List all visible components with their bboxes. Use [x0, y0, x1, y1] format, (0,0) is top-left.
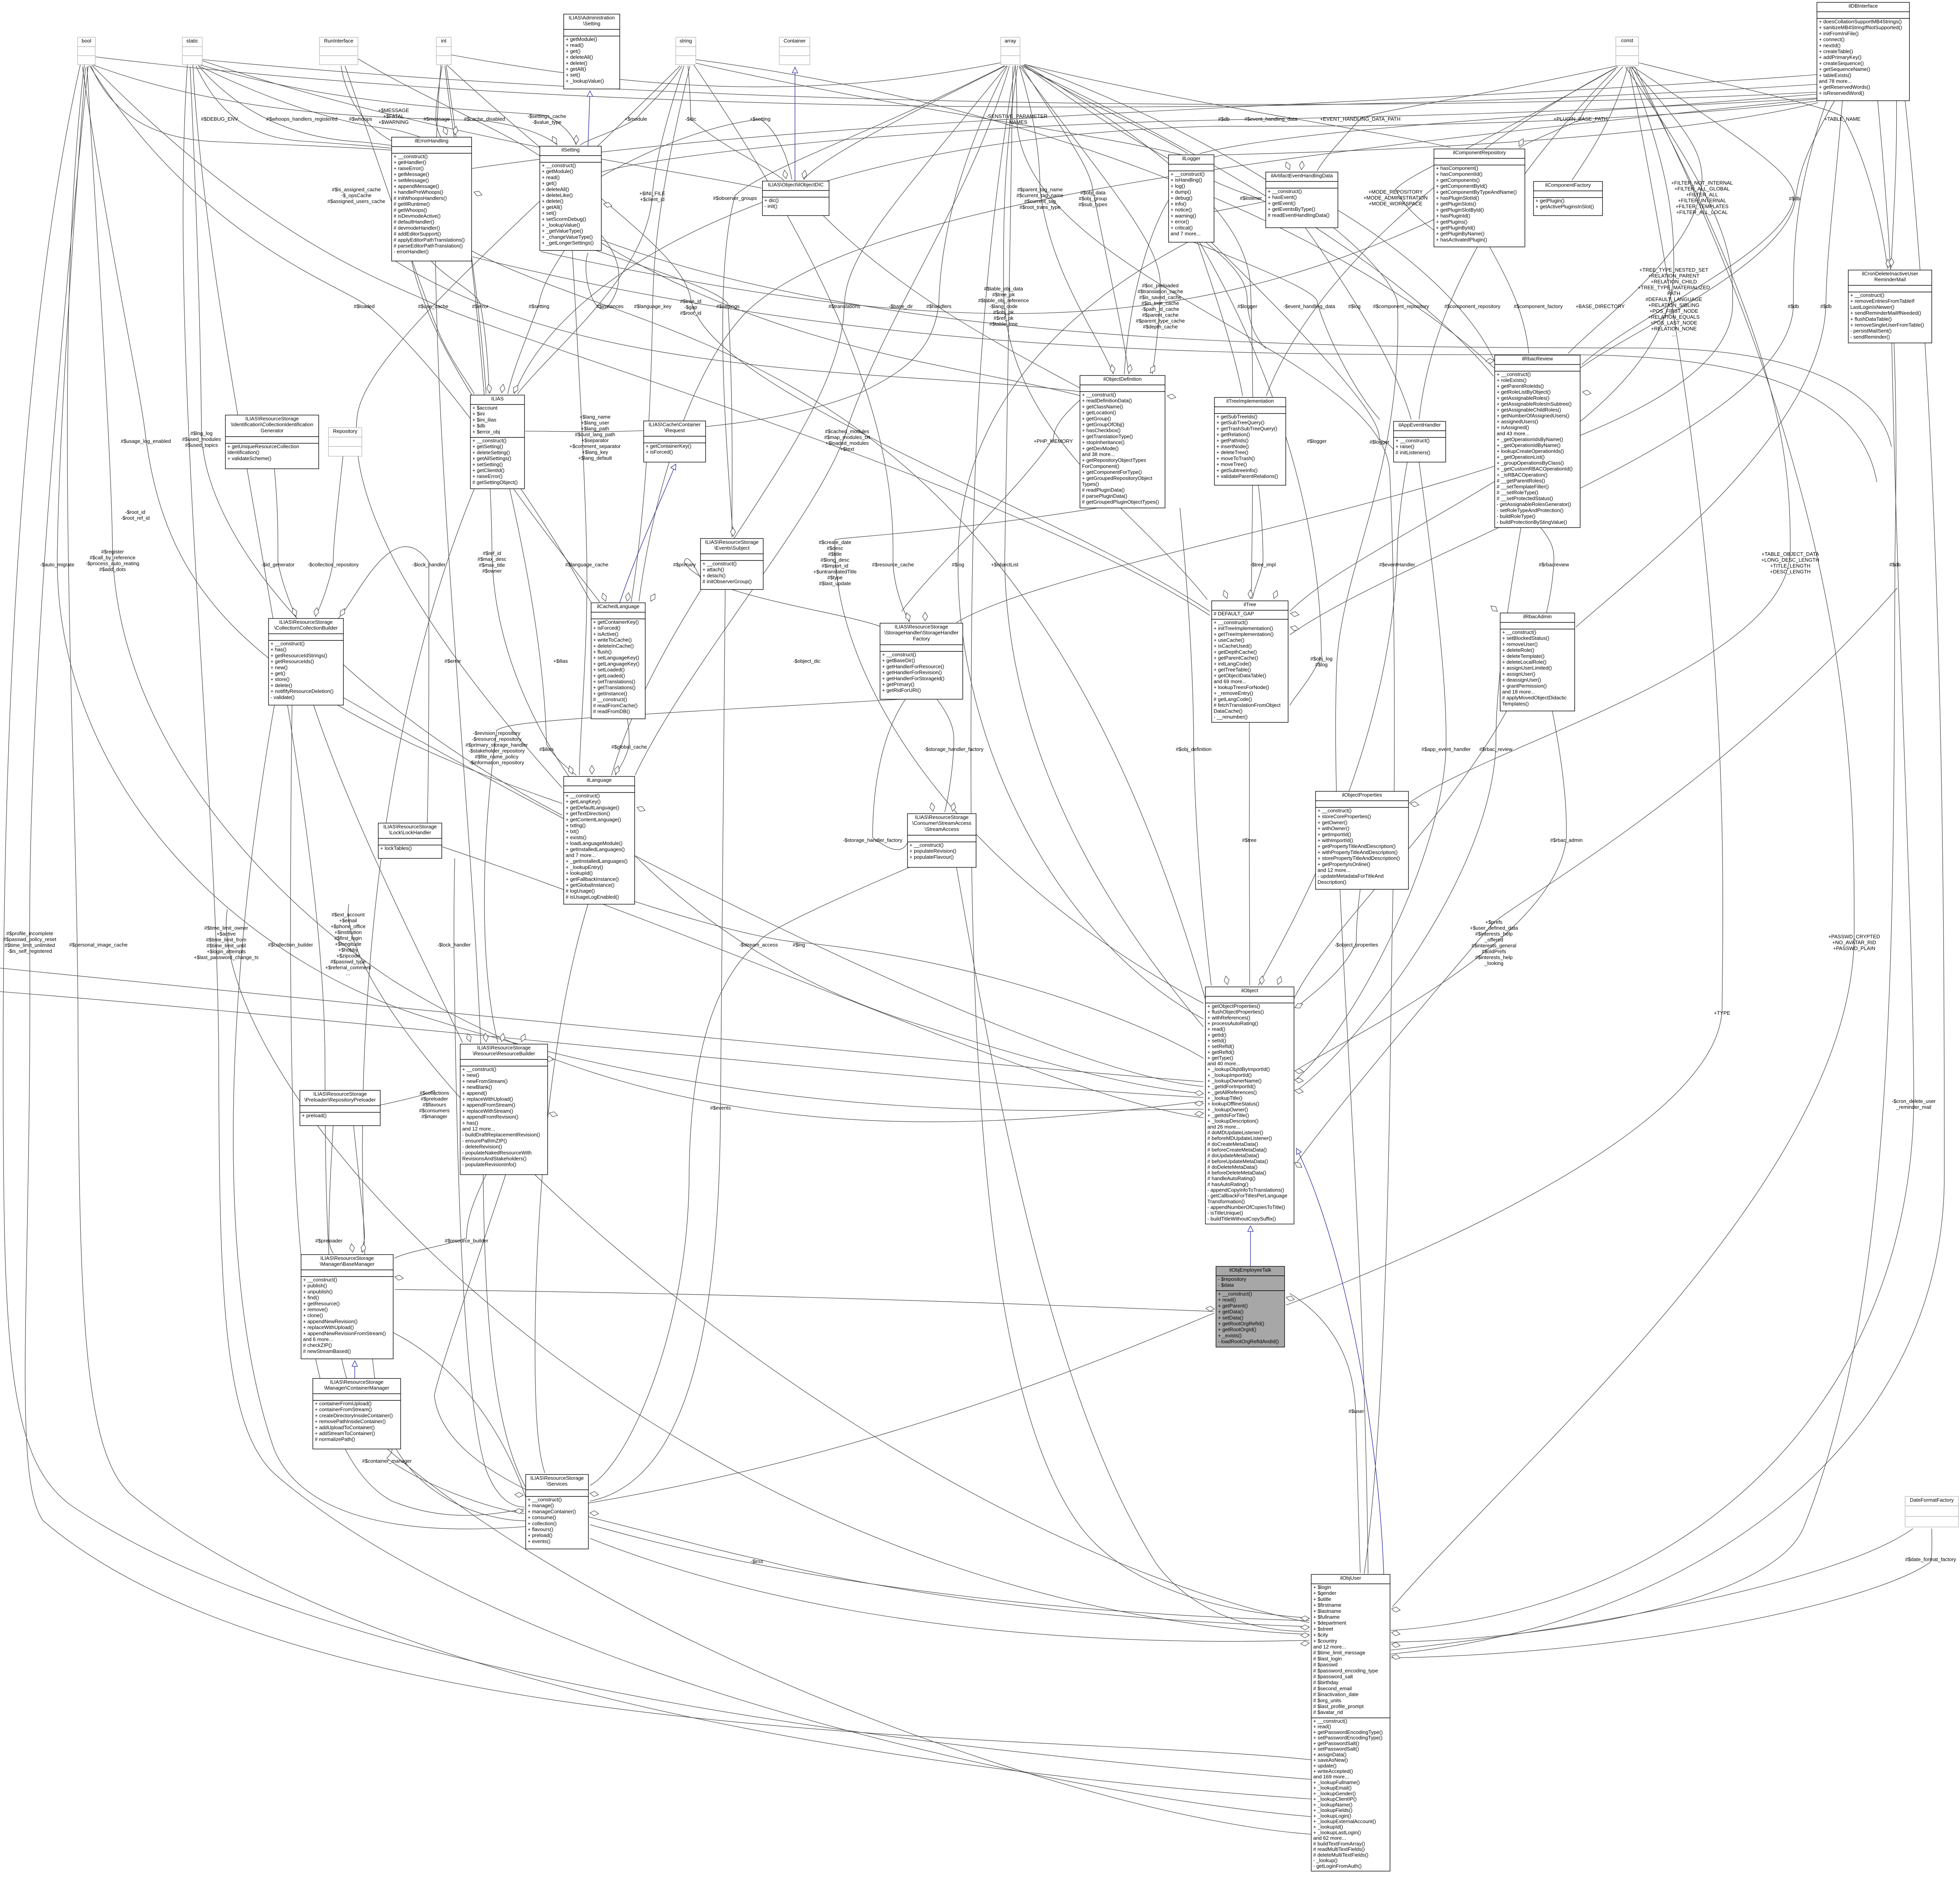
- class Container: [779, 37, 810, 65]
- wire RunInterface -&gt; ilErrorHandling: [341, 66, 444, 156]
- class ResourceBuilder: [460, 1044, 548, 1175]
- svg-text:+ getDepthCache(): + getDepthCache(): [1214, 649, 1257, 655]
- class const: [1616, 37, 1639, 65]
- svg-text:#$primary: #$primary: [673, 562, 696, 568]
- svg-text:+ _getCustomRBACOperationId(): + _getCustomRBACOperationId(): [1497, 466, 1573, 472]
- svg-text:+$client_id: +$client_id: [640, 196, 665, 202]
- wire BaseManager -&gt; Services: [393, 1333, 526, 1497]
- svg-text:#$global_cache: #$global_cache: [611, 744, 647, 750]
- aggregation diamond: [292, 608, 297, 616]
- svg-text:# getSettingObject(): # getSettingObject(): [472, 479, 518, 485]
- svg-text:-$object_dic: -$object_dic: [793, 658, 821, 664]
- wire array -&gt; ilTree table block: [1004, 66, 1207, 600]
- inheritance arrowhead: [1248, 1226, 1253, 1231]
- svg-text:#$obj_pk: #$obj_pk: [993, 309, 1014, 315]
- svg-text:- sendReminder(): - sendReminder(): [1850, 334, 1890, 340]
- svg-text:#$max_title: #$max_title: [479, 562, 505, 568]
- svg-text:+ getHandlerForRevision(): + getHandlerForRevision(): [882, 669, 942, 675]
- svg-text:+ getComponentByTypeAndName(): + getComponentByTypeAndName(): [1436, 189, 1517, 195]
- svg-text:+ _isRBACOperation(): + _isRBACOperation(): [1497, 472, 1548, 478]
- svg-text:+ assignData(): + assignData(): [1313, 1752, 1347, 1757]
- svg-text:+ getPrimary(): + getPrimary(): [882, 682, 915, 687]
- svg-text:+ getMessage(): + getMessage(): [394, 171, 429, 177]
- wire static -&gt; ilErrorHandling whoops: [199, 67, 450, 156]
- svg-text:\Events\Subject: \Events\Subject: [714, 545, 750, 551]
- wire ilObjectDefinition -&gt; create date block ilObject: [835, 508, 1203, 1003]
- svg-text:+ lookupTreesForNode(): + lookupTreesForNode(): [1214, 684, 1269, 690]
- wire const -&gt; MODE block ilComponentRepository: [1396, 67, 1618, 246]
- svg-text:+ _removeEntry(): + _removeEntry(): [1214, 690, 1253, 696]
- svg-text:+ removeEntriesFromTableIf: + removeEntriesFromTableIf: [1850, 298, 1915, 304]
- svg-text:+ _lookupTitle(): + _lookupTitle(): [1207, 1095, 1242, 1101]
- svg-text:+ read(): + read(): [1218, 1297, 1236, 1303]
- aggregation diamond: [500, 1033, 505, 1042]
- svg-text:+$untranslatedTitle: +$untranslatedTitle: [813, 569, 857, 575]
- svg-text:ILIAS\ResourceStorage: ILIAS\ResourceStorage: [279, 619, 333, 625]
- svg-text:+ getComponentById(): + getComponentById(): [1436, 183, 1487, 189]
- class ilSetting: [540, 146, 601, 250]
- svg-text:# handleAutoRating(): # handleAutoRating(): [1207, 1175, 1256, 1181]
- wire RepositoryPreloader -&gt; collections block: [379, 1090, 435, 1105]
- svg-text:- getCallbackForTitlesPerLangu: - getCallbackForTitlesPerLanguage: [1207, 1193, 1287, 1199]
- wire ilLogger -&gt; ilAppEventHandler logger: [1211, 242, 1395, 451]
- svg-text:+ storePropertyTitleAndDescrip: + storePropertyTitleAndDescription(): [1318, 855, 1400, 861]
- svg-text:+ _lookupGender(): + _lookupGender(): [1313, 1790, 1356, 1796]
- svg-text:+ getFallbackInstance(): + getFallbackInstance(): [566, 876, 619, 882]
- svg-text:+ __construct(): + __construct(): [303, 1277, 337, 1283]
- svg-text:ilLanguage: ilLanguage: [587, 777, 612, 783]
- svg-text:ILIAS\ResourceStorage: ILIAS\ResourceStorage: [705, 539, 759, 545]
- wire ilArtifact -&gt; ilAppEventHandler: [1305, 228, 1411, 419]
- wire string -&gt; ilLanguage lang_name: [356, 66, 680, 788]
- svg-text:+ deleteAll(): + deleteAll(): [566, 54, 593, 60]
- svg-text:+$lang_user: +$lang_user: [581, 420, 610, 426]
- svg-text:+ getComponentForType(): + getComponentForType(): [1082, 469, 1142, 475]
- svg-text:#$listener: #$listener: [1240, 195, 1262, 201]
- svg-text:+ hasEvent(): + hasEvent(): [1268, 194, 1297, 200]
- svg-text:# newStreamBased(): # newStreamBased(): [303, 1348, 351, 1354]
- svg-text:#$first_login: #$first_login: [334, 935, 362, 941]
- svg-text:+ delete(): + delete(): [566, 60, 587, 66]
- svg-text:+ new(): + new(): [270, 664, 288, 670]
- svg-text:-$information_repository: -$information_repository: [469, 760, 524, 765]
- svg-text:+ _groupOperationsByClass(): + _groupOperationsByClass(): [1497, 460, 1564, 466]
- svg-text:+ initTreeImplementation(): + initTreeImplementation(): [1214, 626, 1273, 631]
- svg-text:\Manager\ContainerManager: \Manager\ContainerManager: [324, 1385, 390, 1391]
- svg-text:# fetchTranslationFromObject: # fetchTranslationFromObject: [1214, 702, 1281, 708]
- wire MESSAGE FATAL WARNING static -&gt; ilErrorHandling: [198, 65, 452, 155]
- wire bool -&gt; ilObject auto_migrate: [57, 67, 1203, 1110]
- svg-text:#$translations: #$translations: [829, 303, 860, 309]
- aggregation diamond: [1286, 162, 1290, 170]
- svg-text:ILIAS\Administration: ILIAS\Administration: [569, 15, 615, 21]
- svg-text:+ _lookupName(): + _lookupName(): [1313, 1802, 1352, 1808]
- svg-text:+ dump(): + dump(): [1171, 189, 1191, 195]
- class Services: [526, 1474, 588, 1549]
- svg-text:+ _getOperationList(): + _getOperationList(): [1497, 454, 1544, 460]
- svg-text:+ getParent(): + getParent(): [1218, 1303, 1248, 1309]
- svg-text:\Resource\ResourceBuilder: \Resource\ResourceBuilder: [473, 1051, 535, 1057]
- svg-text:+ $db: + $db: [472, 423, 485, 429]
- svg-text:+ getObjectProperties(): + getObjectProperties(): [1207, 1003, 1260, 1009]
- aggregation diamond: [1889, 258, 1894, 267]
- svg-text:+ addStreamToContainer(): + addStreamToContainer(): [315, 1431, 375, 1436]
- aggregation diamond: [487, 384, 492, 393]
- svg-text:+ getActivePluginsInSlot(): + getActivePluginsInSlot(): [1535, 204, 1594, 210]
- svg-text:#$parent_tag_name: #$parent_tag_name: [1017, 187, 1063, 192]
- svg-text:+ populateFlavour(): + populateFlavour(): [909, 854, 954, 860]
- svg-text:#$time_limit_until: #$time_limit_until: [207, 943, 246, 948]
- svg-text:+ removeUser(): + removeUser(): [1502, 641, 1538, 647]
- svg-text:#$table_obj_data: #$table_obj_data: [984, 286, 1024, 292]
- svg-text:+ getImportId(): + getImportId(): [1318, 831, 1351, 837]
- svg-text:# initObserverGroup(): # initObserverGroup(): [702, 579, 752, 584]
- svg-text:+ validateParentRelations(): + validateParentRelations(): [1216, 473, 1278, 479]
- svg-text:+ hasComponent(): + hasComponent(): [1436, 165, 1478, 171]
- svg-text:+ $error_obj: + $error_obj: [472, 429, 500, 435]
- wire ResourceBuilder -&gt; BaseManager resource_builder: [394, 1175, 486, 1258]
- svg-text:-$storage_handler_factory: -$storage_handler_factory: [924, 746, 984, 752]
- svg-text:+ has(): + has(): [462, 1120, 478, 1126]
- svg-text:+LONG_DESC_LENGTH: +LONG_DESC_LENGTH: [1761, 557, 1819, 563]
- svg-text:+ $ini: + $ini: [472, 411, 485, 417]
- svg-text:+ getGlobalInstance(): + getGlobalInstance(): [566, 882, 615, 888]
- svg-text:ilSetting: ilSetting: [561, 147, 579, 153]
- svg-text:+ _lookupValue(): + _lookupValue(): [566, 78, 604, 84]
- svg-text:+ raiseError(): + raiseError(): [394, 165, 424, 171]
- svg-text:and 7 more...: and 7 more...: [1171, 231, 1201, 237]
- svg-text:+ __construct(): + __construct(): [1218, 1291, 1252, 1297]
- svg-text:+$module: +$module: [624, 116, 647, 122]
- aggregation diamond: [483, 1033, 488, 1042]
- svg-text:+$comment_separator: +$comment_separator: [570, 443, 621, 449]
- svg-text:# beforeDeleteMetaData(): # beforeDeleteMetaData(): [1207, 1170, 1266, 1176]
- svg-text:+ txt(): + txt(): [566, 829, 579, 834]
- svg-text:#$table_tree: #$table_tree: [989, 321, 1018, 327]
- svg-text:#$max_desc: #$max_desc: [477, 556, 506, 562]
- svg-text:+ replaceWithUpload(): + replaceWithUpload(): [462, 1096, 513, 1102]
- wire ilDBInterface -&gt; ilTree db: [1290, 101, 1827, 635]
- svg-text:#$profile_incomplete: #$profile_incomplete: [6, 930, 53, 936]
- svg-text:+ isActive(): + isActive(): [593, 631, 619, 637]
- svg-text:+ sendReminderMailIfNeeded(): + sendReminderMailIfNeeded(): [1850, 310, 1921, 316]
- svg-text:+ getClassName(): + getClassName(): [1082, 404, 1123, 410]
- svg-text:+$separator: +$separator: [581, 437, 609, 443]
- svg-text:+ validateScheme(): + validateScheme(): [227, 455, 271, 461]
- svg-text:+ containerFromUpload(): + containerFromUpload(): [315, 1401, 372, 1407]
- svg-text:#$consumers: #$consumers: [419, 1108, 450, 1114]
- svg-text:# isUsageLogEnabled(): # isUsageLogEnabled(): [566, 894, 619, 900]
- svg-text:+ replaceWithStream(): + replaceWithStream(): [462, 1108, 513, 1114]
- svg-text:#$file_name_policy: #$file_name_policy: [475, 754, 519, 760]
- svg-text:#$logger: #$logger: [1370, 439, 1390, 445]
- svg-text:#$setting: #$setting: [529, 303, 550, 309]
- svg-text:+ getPropertyIsOnline(): + getPropertyIsOnline(): [1318, 861, 1370, 867]
- inheritance ilSetting -&gt; ILIAS Administration Setting: [588, 91, 590, 146]
- aggregation diamond: [521, 1034, 526, 1042]
- svg-text:+ getPasswordEncodingType(): + getPasswordEncodingType(): [1313, 1729, 1383, 1735]
- svg-text:# buildTextFromArray(): # buildTextFromArray(): [1313, 1841, 1365, 1846]
- svg-text:+ stopInheritance(): + stopInheritance(): [1082, 439, 1125, 445]
- wire +prefs curve -&gt; ilObject: [1297, 588, 1897, 1162]
- svg-text:+ getResource(): + getResource(): [303, 1300, 340, 1306]
- svg-text:+FILTER_ALL_LOCAL: +FILTER_ALL_LOCAL: [1676, 209, 1728, 215]
- wire static -&gt; ilErrorHandling whoops_handlers: [196, 66, 448, 156]
- class ilTreeImplementation: [1214, 397, 1286, 485]
- svg-text:+ update(): + update(): [1313, 1763, 1337, 1768]
- aggregation diamond: [923, 612, 928, 621]
- svg-text:+ _getLongerSettings(): + _getLongerSettings(): [542, 240, 594, 246]
- svg-text:+ set(): + set(): [566, 72, 580, 78]
- wire preloader self: [354, 1126, 365, 1252]
- aggregation diamond: [1583, 390, 1591, 395]
- svg-text:+ unpublish(): + unpublish(): [303, 1289, 333, 1295]
- svg-text:+ _lookupFullname(): + _lookupFullname(): [1313, 1779, 1360, 1785]
- svg-text:-$path_id_cache: -$path_id_cache: [1142, 306, 1179, 312]
- svg-text:+ getRelation(): + getRelation(): [1216, 432, 1250, 437]
- svg-text:+ processAutoRating(): + processAutoRating(): [1207, 1020, 1258, 1026]
- svg-text:+ lockTables(): + lockTables(): [380, 845, 412, 851]
- svg-text:+ $account: + $account: [472, 405, 497, 411]
- aggregation diamond: [453, 126, 458, 135]
- svg-text:+ collection(): + collection(): [528, 1520, 557, 1526]
- svg-text:+ $gender: + $gender: [1313, 1590, 1337, 1596]
- svg-text:Transformation(): Transformation(): [1207, 1199, 1245, 1204]
- aggregation diamond: [1491, 606, 1497, 611]
- svg-text:_offered: _offered: [1484, 937, 1503, 943]
- class ilObject: [1205, 987, 1294, 1224]
- svg-text:+TYPE: +TYPE: [1714, 1010, 1730, 1016]
- wire left bundle ilObject 7: [0, 968, 1203, 1082]
- svg-text:+ setLoaded(): + setLoaded(): [593, 667, 625, 673]
- aggregation diamond: [1295, 1162, 1302, 1168]
- svg-text:# hasAutoRating(): # hasAutoRating(): [1207, 1181, 1249, 1187]
- svg-text:+ new(): + new(): [462, 1072, 479, 1078]
- svg-text:+ __construct(): + __construct(): [270, 641, 305, 647]
- wire ilErrorHandling -&gt; ILIAS low: [412, 261, 472, 396]
- svg-text:# getWhoops(): # getWhoops(): [394, 207, 427, 213]
- svg-text:+$lang_default: +$lang_default: [578, 455, 612, 461]
- svg-text:+ deleteRole(): + deleteRole(): [1502, 647, 1534, 653]
- wire left bundle ilObject 6: [442, 847, 1203, 1118]
- svg-text:+ isHandling(): + isHandling(): [1171, 177, 1202, 183]
- wire array -&gt; ilArtifact listener: [1024, 65, 1290, 214]
- svg-text:+ __construct(): + __construct(): [1497, 372, 1531, 377]
- svg-text:#$error: #$error: [445, 658, 461, 664]
- svg-text:+ getTreeTable(): + getTreeTable(): [1214, 667, 1251, 673]
- svg-text:#$observer_groups: #$observer_groups: [713, 195, 757, 201]
- svg-text:#DEFAULT_LANGUAGE: #DEFAULT_LANGUAGE: [1646, 296, 1702, 302]
- svg-text:# getGroupedPluginObjectTypes(: # getGroupedPluginObjectTypes(): [1082, 499, 1159, 505]
- wire array -&gt; ilObjectDIC observer groups: [804, 66, 1005, 180]
- svg-text:\StreamAccess: \StreamAccess: [925, 826, 959, 832]
- svg-text:+ flushDataTable(): + flushDataTable(): [1850, 316, 1892, 322]
- svg-text:# logUsage(): # logUsage(): [566, 888, 595, 894]
- svg-text:+POS_LAST_NODE: +POS_LAST_NODE: [1650, 320, 1697, 326]
- svg-text:+ __construct(): + __construct(): [1502, 629, 1536, 635]
- aggregation diamond: [1248, 590, 1253, 598]
- svg-text:+ getRefId(): + getRefId(): [1207, 1049, 1234, 1055]
- class RepositoryPreloader: [300, 1090, 380, 1126]
- svg-text:+TITLE_LENGTH: +TITLE_LENGTH: [1770, 563, 1811, 569]
- svg-text:+ setSetting(): + setSetting(): [472, 461, 503, 467]
- svg-text:+MODE_WORKSPACE: +MODE_WORKSPACE: [1368, 201, 1423, 207]
- wire array -&gt; ilObjectDefinition oc_preloaded: [1020, 67, 1160, 374]
- wire int -&gt; ilObject ref_id block: [446, 65, 1203, 1094]
- svg-text:#$add_dots: #$add_dots: [99, 566, 126, 572]
- svg-text:+ notififyResourceDeletion(): + notififyResourceDeletion(): [270, 688, 334, 694]
- svg-text:...: ...: [1672, 332, 1676, 337]
- class EventsSubject: [701, 539, 763, 589]
- svg-text:+ set(): + set(): [542, 210, 556, 216]
- wire ilObjUser -&gt; date_format_factory label: [1391, 1529, 1932, 1658]
- svg-text:#$date_format_factory: #$date_format_factory: [1905, 1556, 1956, 1562]
- svg-text:+ __construct(): + __construct(): [1268, 189, 1302, 194]
- aggregation diamond: [474, 191, 482, 196]
- wire highway 2: [392, 259, 1082, 392]
- svg-text:+ sanitizeMB4StringIfNotSuppor: + sanitizeMB4StringIfNotSupported(): [1819, 25, 1902, 31]
- svg-text:#$ilias: #$ilias: [539, 746, 554, 752]
- svg-text:+ createSequence(): + createSequence(): [1819, 60, 1864, 66]
- svg-text:and 69 more...: and 69 more...: [1214, 678, 1247, 684]
- svg-text:+ _getOperationIdsByName(): + _getOperationIdsByName(): [1497, 436, 1563, 442]
- wire bool to ilObjUser far left 2: [67, 65, 1311, 1799]
- svg-text:#$component_factory: #$component_factory: [1514, 303, 1563, 309]
- svg-text:+ deleteTemplate(): + deleteTemplate(): [1502, 653, 1544, 659]
- svg-text:+ flavours(): + flavours(): [528, 1527, 553, 1532]
- svg-text:#$root_trans_type: #$root_trans_type: [1020, 204, 1061, 210]
- svg-text:+$longitude: +$longitude: [335, 941, 361, 947]
- svg-text:+ __construct(): + __construct(): [462, 1066, 496, 1072]
- svg-text:+FILTER_INTERNAL: +FILTER_INTERNAL: [1678, 198, 1726, 203]
- svg-text:- getLoginFromAuth(): - getLoginFromAuth(): [1313, 1863, 1362, 1869]
- svg-text:bool: bool: [82, 38, 91, 44]
- aggregation diamond: [1195, 1111, 1203, 1116]
- svg-text:#$flavours: #$flavours: [423, 1102, 446, 1108]
- aggregation diamond: [604, 203, 612, 208]
- svg-text:#$usage_log_enabled: #$usage_log_enabled: [121, 438, 171, 444]
- svg-text:+ getRidForURI(): + getRidForURI(): [882, 687, 921, 693]
- wire BaseManager -&gt; ilObjEmployeeTalk: [395, 1289, 1214, 1311]
- svg-text:+ removeSingleUserFromTable(): + removeSingleUserFromTable(): [1850, 322, 1924, 328]
- wire ilObjUser attrs block from left: [348, 904, 1309, 1623]
- wire ilSetting -&gt; ILIAS setting: [508, 250, 564, 394]
- wire static -&gt; ilObjectDIC: [202, 61, 762, 188]
- svg-text:#$settings: #$settings: [716, 303, 740, 309]
- aggregation diamond: [340, 609, 345, 616]
- svg-text:+$objectList: +$objectList: [991, 562, 1018, 568]
- class CollectionIdentificationGenerator: [225, 415, 319, 469]
- svg-text:+ $ini_ilias: + $ini_ilias: [472, 417, 497, 423]
- svg-text:#$tree_pk: #$tree_pk: [992, 292, 1015, 297]
- svg-text:+ setScormDebug(): + setScormDebug(): [542, 216, 586, 222]
- svg-text:# deleteMultiTextFields(): # deleteMultiTextFields(): [1313, 1852, 1368, 1858]
- class BaseManager: [301, 1255, 393, 1359]
- svg-text:#$create_date: #$create_date: [818, 539, 851, 545]
- svg-text:+ initFromIniFile(): + initFromIniFile(): [1819, 31, 1859, 36]
- wire const -&gt; ilComponentFactory: [1572, 67, 1628, 180]
- wire const -&gt; TYPE ilObjEmployeeTalk: [1286, 67, 1723, 1305]
- wire Repository -&gt; CollectionBuilder collection_repository: [316, 456, 343, 617]
- svg-text:+ writeAccepted(): + writeAccepted(): [1313, 1768, 1353, 1774]
- svg-text:- $data: - $data: [1218, 1282, 1234, 1288]
- svg-text:#$assigned_users_cache: #$assigned_users_cache: [327, 198, 385, 204]
- svg-text:+MODE_ADMINISTRATION: +MODE_ADMINISTRATION: [1363, 195, 1428, 201]
- wire const -&gt; BASE_DIRECTORY StorageHandlerFactory: [956, 67, 1733, 622]
- svg-text:+PASSWD_CRYPTED: +PASSWD_CRYPTED: [1828, 934, 1880, 939]
- svg-text:+ populateRevision(): + populateRevision(): [909, 848, 956, 854]
- svg-text:#$resource_builder: #$resource_builder: [445, 1238, 488, 1244]
- svg-text:+ getGroupedRepositoryObject: + getGroupedRepositoryObject: [1082, 475, 1152, 481]
- svg-text:# parsePluginData(): # parsePluginData(): [1082, 493, 1127, 499]
- svg-text:#$instances: #$instances: [596, 303, 624, 309]
- svg-text:#$preloader: #$preloader: [315, 1238, 343, 1244]
- wire int -&gt; ILIAS: [445, 66, 486, 394]
- svg-text:+ getResourceIds(): + getResourceIds(): [270, 658, 314, 664]
- svg-text:+ $street: + $street: [1313, 1626, 1333, 1632]
- svg-text:- getAssignableRolesGenerator(: - getAssignableRolesGenerator(): [1497, 501, 1571, 507]
- svg-text:#$language_cache: #$language_cache: [565, 562, 608, 568]
- svg-text:-$lang_code: -$lang_code: [989, 303, 1018, 309]
- wire ilLogger -&gt; ilRbacReview logger: [1214, 195, 1494, 361]
- wire Services -&gt; ilObjUser 3: [590, 1538, 1309, 1641]
- svg-text:-$_opsCache: -$_opsCache: [341, 192, 371, 198]
- wire ilLogger -&gt; ilTree obj_log: [1200, 242, 1321, 705]
- svg-text:+ remove(): + remove(): [303, 1307, 328, 1313]
- svg-text:+ preload(): + preload(): [528, 1532, 552, 1538]
- svg-text:#$ref_pk: #$ref_pk: [994, 315, 1014, 321]
- svg-text:+ getSubTreeIds(): + getSubTreeIds(): [1216, 414, 1258, 420]
- svg-text:ILIAS\ResourceStorage: ILIAS\ResourceStorage: [245, 416, 299, 422]
- svg-text:-$collection_repository: -$collection_repository: [308, 562, 359, 568]
- svg-text:#$personal_image_cache: #$personal_image_cache: [69, 942, 128, 948]
- inheritance arrowhead: [1296, 1148, 1301, 1155]
- svg-text:#$log: #$log: [952, 562, 964, 568]
- svg-text:ILIAS\ResourceStorage: ILIAS\ResourceStorage: [330, 1379, 384, 1385]
- svg-text:+ createDirectoryInsideContain: + createDirectoryInsideContainer(): [315, 1413, 393, 1418]
- svg-text:+TREE_TYPE_NESTED_SET: +TREE_TYPE_NESTED_SET: [1639, 267, 1708, 273]
- aggregation diamond: [626, 593, 631, 601]
- svg-text:#$logger: #$logger: [1238, 303, 1258, 309]
- wire array -&gt; translations ilLanguage: [612, 66, 1007, 775]
- svg-text:+ has(): + has(): [270, 647, 287, 653]
- wire ilDBInterface -&gt; ilCachedLanguage: [639, 99, 1817, 601]
- svg-text:#$rbac_review: #$rbac_review: [1479, 746, 1513, 752]
- svg-text:ilTree: ilTree: [1243, 602, 1256, 608]
- svg-text:+ appendFromRevision(): + appendFromRevision(): [462, 1114, 518, 1120]
- class ilLanguage: [564, 776, 635, 904]
- svg-text:+ __construct(): + __construct(): [1318, 808, 1352, 814]
- class RunInterface: [319, 37, 358, 65]
- wire ilObjUser -&gt; DateFormatFactory: [1391, 1529, 1913, 1650]
- svg-text:\Request: \Request: [664, 428, 685, 433]
- class ilComponentRepository: [1434, 149, 1525, 247]
- wire const -&gt; EVENT_HANDLING_DATA_PATH ilArtifact: [1317, 66, 1617, 171]
- svg-text:+ __construct(): + __construct(): [1171, 171, 1205, 177]
- svg-text:+ getHandlerForResource(): + getHandlerForResource(): [882, 664, 944, 669]
- svg-text:ilErrorHandling: ilErrorHandling: [415, 138, 448, 144]
- svg-text:+ loadLanguageModule(): + loadLanguageModule(): [566, 840, 622, 846]
- svg-text:+ assignedUsers(): + assignedUsers(): [1497, 419, 1538, 424]
- svg-text:+ getParentCache(): + getParentCache(): [1214, 655, 1258, 661]
- svg-text:# devmodeHandler(): # devmodeHandler(): [394, 225, 440, 231]
- wire StreamAccess -&gt; ilObjUser: [956, 867, 1309, 1631]
- svg-text:+$phone_office: +$phone_office: [330, 923, 365, 929]
- svg-text:+ __construct(): + __construct(): [909, 842, 944, 848]
- svg-text:#$DEBUG_ENV: #$DEBUG_ENV: [201, 116, 238, 122]
- svg-text:\Preloader\RepositoryPreloader: \Preloader\RepositoryPreloader: [304, 1097, 376, 1103]
- svg-text:# isDevmodeActive(): # isDevmodeActive(): [394, 213, 441, 219]
